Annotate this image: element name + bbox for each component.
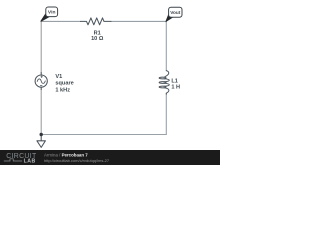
svg-text:1 kHz: 1 kHz <box>55 87 70 93</box>
svg-text:Vout: Vout <box>170 10 181 15</box>
svg-text:LAB: LAB <box>24 159 36 165</box>
svg-text:L1: L1 <box>171 78 178 84</box>
svg-text:Vin: Vin <box>48 10 56 16</box>
wire right vertical lower <box>165 94 167 135</box>
CircuitLab logo <box>4 153 37 165</box>
wire bottom <box>41 134 166 136</box>
node Vout flag <box>166 7 182 22</box>
wire left vertical lower <box>40 89 42 134</box>
svg-text:http://circuitlab.com/c/rvdutq: http://circuitlab.com/c/rvdutqq/lms-27 <box>44 158 110 163</box>
node Vin flag <box>41 7 58 22</box>
svg-text:square: square <box>55 80 73 86</box>
svg-text:10 Ω: 10 Ω <box>91 36 104 42</box>
wire top-left segment <box>41 20 81 22</box>
wire top-right segment <box>111 20 166 22</box>
components (dark slate) <box>35 18 169 148</box>
wire right vertical upper <box>165 21 167 70</box>
wires (light grey) <box>41 21 166 134</box>
inductor L1 <box>159 71 169 95</box>
resistor R1 <box>81 18 112 25</box>
wire left vertical upper <box>40 21 42 72</box>
svg-text:V1: V1 <box>55 74 62 80</box>
ground <box>37 135 46 148</box>
footer bar <box>0 150 220 165</box>
junction dot <box>40 133 43 136</box>
voltage source V1 <box>35 73 47 90</box>
svg-text:1 H: 1 H <box>171 84 180 90</box>
